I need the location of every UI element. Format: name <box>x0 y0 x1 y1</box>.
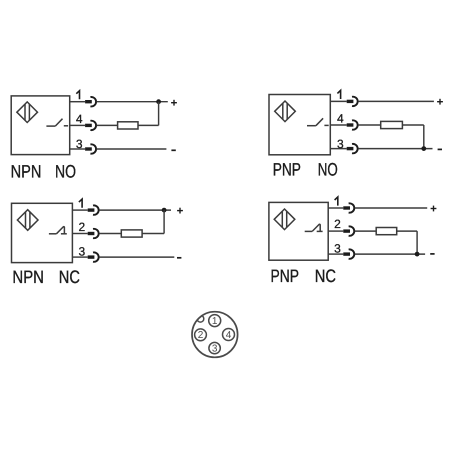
connector pin plug 1 (U2) <box>347 97 358 106</box>
connector pin 1 circle <box>209 315 221 327</box>
pin label 1 (U1) <box>76 91 79 100</box>
pin label 1 (U3) <box>79 199 82 208</box>
svg-text:NO: NO <box>318 160 338 180</box>
wire pin1 to + terminal (U3) <box>99 209 171 211</box>
- terminal (U1) <box>171 149 175 151</box>
+ terminal (U4) <box>431 206 437 212</box>
- terminal (U2) <box>438 148 442 150</box>
svg-text:PNP: PNP <box>273 160 301 180</box>
load resistor RL1 (U1) <box>118 122 138 129</box>
svg-text:1: 1 <box>212 316 218 327</box>
M12 connector outer circle <box>192 312 238 358</box>
wire pin4 to load (U1) <box>97 124 118 126</box>
wire U2 pin3 stub <box>330 148 346 150</box>
load resistor RL4 (U4) <box>376 228 397 235</box>
connector pin plug 2 (U3) <box>88 229 99 238</box>
connector pin plug 1 (U1) <box>85 97 96 106</box>
sensor body outline U1 (NPN NO) <box>11 96 69 155</box>
wire U4 pin2 stub <box>328 230 343 232</box>
riser wire load to + junction (U1) <box>158 102 160 126</box>
connector pin plug 4 (U1) <box>85 121 96 130</box>
connector pin plug 4 (U2) <box>347 120 358 129</box>
junction dot on + rail (U3) <box>162 208 167 213</box>
svg-text:3: 3 <box>212 344 218 355</box>
load resistor RL2 (U2) <box>381 121 403 128</box>
svg-text:4: 4 <box>226 330 232 341</box>
connector pin plug 2 (U4) <box>343 226 354 235</box>
svg-text:NPN: NPN <box>12 267 44 287</box>
svg-text:3: 3 <box>337 137 344 151</box>
drop wire load to - junction (U4) <box>416 231 418 254</box>
wire pin1 to + terminal (U4) <box>355 207 427 209</box>
svg-text:PNP: PNP <box>271 266 300 286</box>
wire U1 pin3 stub <box>70 148 85 150</box>
wire pin1 to + terminal (U1) <box>97 101 168 103</box>
wire U1 pin1 stub <box>70 101 85 103</box>
NC contact switch in U4 <box>305 224 323 231</box>
wire U4 pin3 stub <box>328 253 343 255</box>
junction dot on - rail (U2) <box>421 146 426 151</box>
wire U3 pin2 stub <box>72 233 87 235</box>
proximity sensor symbol (diamond) in U2 <box>275 101 296 122</box>
wire load to riser (U1) <box>138 124 159 126</box>
svg-text:2: 2 <box>198 330 204 341</box>
wire pin3 to - terminal (U3) <box>99 256 174 258</box>
NC contact switch in U3 <box>49 227 67 234</box>
wire pin2 to load (U4) <box>355 230 376 232</box>
wire U2 pin1 stub <box>330 100 346 102</box>
pin label 1 (U4) <box>335 197 338 206</box>
wire U2 pin4 stub <box>330 124 346 126</box>
svg-text:4: 4 <box>76 112 83 126</box>
wire pin3 to - terminal (U4) <box>355 253 425 255</box>
connector pin plug 1 (U4) <box>343 203 354 212</box>
svg-text:2: 2 <box>334 217 341 231</box>
proximity sensor symbol (diamond) in U3 <box>17 210 38 231</box>
svg-text:4: 4 <box>337 112 344 126</box>
svg-text:NC: NC <box>59 267 80 287</box>
svg-text:NC: NC <box>315 266 336 286</box>
connector pin plug 3 (U3) <box>88 252 99 261</box>
sensor body outline U2 (PNP NO) <box>269 95 330 155</box>
connector pin plug 3 (U4) <box>343 249 354 258</box>
- terminal (U3) <box>177 257 181 259</box>
pin label 1 (U2) <box>337 90 340 99</box>
connector pin 3 circle <box>209 342 220 353</box>
- terminal (U4) <box>430 253 434 255</box>
connector pin plug 3 (U1) <box>85 144 96 153</box>
wire pin2 to load (U3) <box>99 233 121 235</box>
wire pin1 to + terminal (U2) <box>358 100 434 102</box>
proximity sensor symbol (diamond) in U4 <box>274 209 295 230</box>
junction dot on - rail (U4) <box>415 252 420 257</box>
sensor body outline U4 (PNP NC) <box>269 202 328 260</box>
wire pin4 to load (U2) <box>358 124 381 126</box>
wire U3 pin1 stub <box>72 209 87 211</box>
wire U4 pin1 stub <box>328 207 343 209</box>
sensor body outline U3 (NPN NC) <box>12 203 73 262</box>
junction dot on + rail (U1) <box>156 99 161 104</box>
svg-text:NO: NO <box>55 162 76 182</box>
connector pin plug 1 (U3) <box>88 205 99 214</box>
svg-text:NPN: NPN <box>11 162 42 182</box>
proximity sensor symbol (diamond) in U1 <box>17 102 38 123</box>
svg-text:3: 3 <box>76 137 83 151</box>
wire load to dropper (U2) <box>402 124 423 126</box>
+ terminal (U3) <box>177 208 183 214</box>
+ terminal (U1) <box>171 100 177 106</box>
wire U1 pin4 stub <box>70 124 85 126</box>
connector pin 4 circle <box>223 329 235 341</box>
svg-text:3: 3 <box>78 245 85 259</box>
connector pin 2 circle <box>195 329 207 341</box>
connector pin plug 3 (U2) <box>347 144 358 153</box>
wire pin3 to - terminal (U2) <box>358 148 432 150</box>
NO contact switch in U2 <box>307 118 329 125</box>
drop wire load to - junction (U2) <box>423 125 425 149</box>
load resistor RL3 (U3) <box>121 230 142 237</box>
wire load to riser (U3) <box>142 233 164 235</box>
svg-text:2: 2 <box>78 220 85 234</box>
riser wire load to + junction (U3) <box>163 210 165 233</box>
wire U3 pin3 stub <box>72 256 87 258</box>
wire pin3 to - terminal (U1) <box>97 148 167 150</box>
wire load to dropper (U4) <box>397 230 417 232</box>
+ terminal (U2) <box>437 99 443 105</box>
NO contact switch in U1 <box>46 119 68 126</box>
svg-text:3: 3 <box>334 241 341 255</box>
